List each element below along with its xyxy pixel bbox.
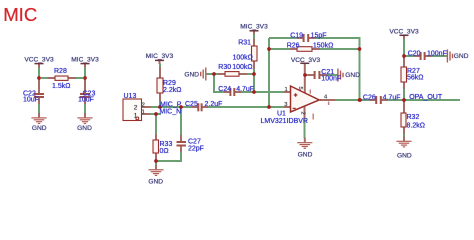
svg-text:VCC_3V3: VCC_3V3 <box>24 57 54 64</box>
svg-text:C19: C19 <box>290 32 303 39</box>
svg-text:R30: R30 <box>218 64 231 71</box>
svg-text:GND: GND <box>454 53 469 60</box>
svg-text:U13: U13 <box>124 93 137 100</box>
svg-text:150kΩ: 150kΩ <box>313 43 333 50</box>
svg-text:MIC_3V3: MIC_3V3 <box>240 24 268 31</box>
svg-text:VCC_3V3: VCC_3V3 <box>291 57 321 64</box>
svg-text:GND: GND <box>184 72 199 79</box>
svg-text:100kΩ: 100kΩ <box>232 64 252 71</box>
svg-text:R33: R33 <box>160 141 173 148</box>
svg-text:GND: GND <box>345 72 360 79</box>
svg-text:1: 1 <box>285 87 288 93</box>
svg-text:GND: GND <box>32 125 47 132</box>
svg-text:R28: R28 <box>54 68 67 75</box>
svg-text:8.2kΩ: 8.2kΩ <box>407 123 425 130</box>
svg-text:C27: C27 <box>188 138 201 145</box>
svg-text:22pF: 22pF <box>188 146 204 153</box>
svg-text:MIC_N: MIC_N <box>159 109 181 116</box>
svg-text:4.7uF: 4.7uF <box>383 94 401 101</box>
svg-text:LMV321IDBVR: LMV321IDBVR <box>261 118 308 125</box>
svg-text:100nF: 100nF <box>321 76 341 83</box>
svg-text:C26: C26 <box>363 94 376 101</box>
svg-text:2: 2 <box>300 112 306 115</box>
svg-text:MIC_P: MIC_P <box>160 101 182 108</box>
svg-text:1: 1 <box>142 110 145 116</box>
svg-text:2: 2 <box>134 104 138 111</box>
svg-text:MIC_3V3: MIC_3V3 <box>71 57 99 64</box>
svg-text:R32: R32 <box>407 114 420 121</box>
svg-text:1.5kΩ: 1.5kΩ <box>52 83 70 90</box>
svg-text:1: 1 <box>134 112 138 119</box>
svg-text:U1: U1 <box>277 110 286 117</box>
svg-text:10uF: 10uF <box>23 97 39 104</box>
svg-text:R31: R31 <box>238 39 251 46</box>
svg-text:100nF: 100nF <box>427 50 447 57</box>
svg-text:15pF: 15pF <box>311 32 327 39</box>
svg-text:OPA_OUT: OPA_OUT <box>409 94 443 101</box>
svg-text:MIC_3V3: MIC_3V3 <box>146 53 174 60</box>
svg-text:3: 3 <box>284 102 287 108</box>
svg-text:MIC: MIC <box>3 4 37 25</box>
svg-text:GND: GND <box>148 179 163 186</box>
svg-text:GND: GND <box>298 151 313 158</box>
svg-text:2.2kΩ: 2.2kΩ <box>163 87 181 94</box>
svg-text:100kΩ: 100kΩ <box>233 54 253 61</box>
svg-text:VCC_3V3: VCC_3V3 <box>389 28 419 35</box>
svg-text:2.2uF: 2.2uF <box>205 101 223 108</box>
svg-text:10uF: 10uF <box>78 97 94 104</box>
svg-text:56kΩ: 56kΩ <box>407 75 424 82</box>
svg-text:GND: GND <box>77 125 92 132</box>
svg-text:C20: C20 <box>408 51 421 58</box>
svg-text:GND: GND <box>397 152 412 159</box>
svg-text:R26: R26 <box>287 43 300 50</box>
svg-text:0Ω: 0Ω <box>160 148 169 155</box>
svg-text:C24: C24 <box>218 86 231 93</box>
svg-text:5: 5 <box>297 87 303 90</box>
svg-text:C25: C25 <box>185 101 198 108</box>
svg-text:4.7uF: 4.7uF <box>236 86 254 93</box>
svg-text:2: 2 <box>142 102 145 108</box>
